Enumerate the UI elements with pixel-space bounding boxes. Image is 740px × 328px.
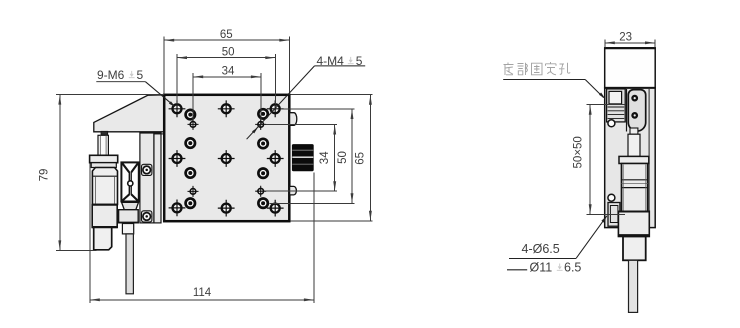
固 [532,63,543,75]
rail line [626,89,628,132]
svg-text:50: 50 [222,47,235,59]
M4 holes 4x [188,119,199,130]
extension line 79 top [56,94,164,96]
dimension 114 [89,164,91,303]
micrometer barrel [92,168,117,205]
svg-text:65: 65 [220,29,233,41]
svg-text:34: 34 [222,66,235,78]
部 [518,63,528,75]
top clamp block [607,89,626,122]
cable front view [126,234,133,294]
micrometer knob [94,227,112,249]
carriage trapezoid [122,202,139,209]
micrometer collar [90,155,118,162]
collar side view [619,156,649,163]
svg-text:Ø11: Ø11 [530,261,553,275]
dimension 34 vertical right [266,124,337,126]
dimension 50 top [176,54,178,104]
dimension 50 vertical right [281,108,355,110]
svg-text:50×50: 50×50 [573,136,585,168]
svg-text:50: 50 [337,151,349,164]
svg-text:9-M6: 9-M6 [97,68,125,82]
micrometer collar tier2 [91,163,116,168]
micrometer thimble [92,205,117,228]
svg-text:4-Ø6.5: 4-Ø6.5 [522,242,560,256]
dimension 50x50 [587,104,625,106]
top fixing hole circle [608,120,615,127]
dimension 23 [604,40,606,48]
svg-text:23: 23 [619,32,632,44]
plate mounting screw bottom [142,211,152,222]
column-to-plate step line [154,133,165,135]
body white cap [605,48,656,88]
flexure bottom funnel [122,194,138,201]
spindle side view [630,128,638,134]
side tab screw top [290,113,297,126]
flexure stem [129,172,131,195]
carriage block [119,210,139,223]
barrel side view [621,164,647,212]
side tab screw bottom [290,186,297,195]
定 [546,62,557,75]
svg-text:5: 5 [137,68,144,82]
knob side view [623,237,646,261]
counterbore holes 4-Ø6.5/Ø11 columns [186,110,195,119]
plate mounting screw top [142,164,152,175]
svg-text:34: 34 [319,151,331,164]
孔 [559,63,570,74]
flexure pivot circle [128,181,133,186]
flexure X element column [121,162,138,201]
wedge bracket [94,95,165,132]
main plate [164,95,289,221]
micrometer spindle cap [101,131,108,135]
side mounting column [140,133,161,223]
M6 hole grid 3x3 [169,100,186,117]
cable stem [122,224,133,234]
svg-text:65: 65 [354,152,366,165]
dimension 65 top [163,37,165,95]
column inner line [153,134,155,223]
extension line 79 bottom [56,249,97,251]
bottom clamp block [608,203,620,227]
dimension 34 top [192,73,194,120]
底 [504,63,514,76]
svg-text:6.5: 6.5 [564,261,581,275]
knurled adjustment knob [292,144,314,171]
label bottom fixing holes (CJK hand-drawn) [504,62,571,75]
svg-text:114: 114 [193,287,212,299]
svg-text:79: 79 [39,169,51,182]
carriage plate with screws [628,90,645,132]
dimension 65 vertical right [291,94,373,96]
micrometer spindle [98,135,108,155]
flexure top funnel [122,163,138,172]
cable side view [629,260,638,312]
body gray lower [605,88,656,228]
bottom fixing hole circle [608,194,615,201]
body inner right line [648,89,650,228]
dimension 79 [59,95,61,251]
bottom block [618,211,649,236]
